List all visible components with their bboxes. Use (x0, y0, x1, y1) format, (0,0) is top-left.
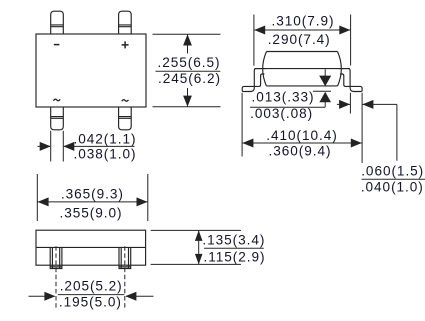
side view body right arc (338, 52, 342, 86)
svg-text:.013(.33): .013(.33) (252, 90, 315, 105)
side view right gull-wing lead (338, 69, 362, 92)
arrowhead .410 right (351, 139, 362, 148)
fraction bar .135/.115 (204, 247, 264, 249)
front view right pin (119, 247, 131, 268)
dim .013/.003 arrow stems (250, 69, 325, 107)
svg-text:.040(1.0): .040(1.0) (361, 179, 424, 194)
arrowhead .042 left (63, 142, 74, 151)
svg-text:.003(.08): .003(.08) (250, 106, 313, 121)
svg-text:.042(1.1): .042(1.1) (74, 131, 137, 146)
front view parting line (36, 246, 146, 248)
arrowhead .255 down (183, 96, 192, 107)
dim .410/.360 extension lines (242, 93, 362, 163)
fraction bar .060/.040 (362, 178, 425, 180)
svg-text:.245(6.2): .245(6.2) (158, 71, 221, 86)
svg-text:.365(9.3): .365(9.3) (61, 187, 124, 202)
top view pin 1 (top-left) (51, 11, 64, 34)
arrowhead .135 up (195, 230, 203, 241)
AC tilde mark right (122, 100, 129, 101)
svg-text:.195(5.0): .195(5.0) (59, 295, 122, 310)
dim .135/.115 arrow line (198, 230, 200, 264)
side view left gull-wing lead (242, 69, 266, 92)
side view body top (267, 51, 338, 53)
side view body left arc (263, 52, 267, 86)
dim .410/.360 arrow line (242, 142, 362, 144)
plus polarity mark (122, 41, 129, 48)
side view lead top line (255, 68, 350, 70)
front view right pin centerline (124, 246, 126, 309)
fraction bar .205/.195 (58, 294, 124, 296)
arrowhead .255 up (183, 34, 192, 45)
front view left pin centerline (55, 246, 57, 309)
arrowhead .060 left (362, 100, 373, 109)
arrowhead .365 left (38, 197, 49, 206)
arrowhead .310 right (339, 26, 350, 35)
svg-text:.060(1.5): .060(1.5) (361, 164, 424, 179)
dim .310/.290 extension lines (254, 15, 351, 66)
fraction bar .255/.245 (156, 70, 221, 72)
arrowhead .205 left (125, 292, 136, 301)
dim .135/.115 extension lines (151, 230, 241, 264)
svg-text:.410(10.4): .410(10.4) (266, 128, 337, 143)
minus polarity mark (54, 44, 60, 46)
dim .365/.355 extension lines (37, 174, 148, 221)
svg-text:.290(7.4): .290(7.4) (268, 32, 331, 47)
top view pin 2 (top-right) (119, 11, 132, 34)
arrowhead .205 right (44, 292, 55, 301)
arrowhead .013 down (319, 76, 331, 87)
arrowhead .135 down (195, 254, 203, 265)
svg-text:.135(3.4): .135(3.4) (202, 233, 265, 248)
dim .255/.245 extension lines (153, 34, 221, 107)
front view left pin (50, 247, 62, 268)
arrowhead .310 left (254, 26, 265, 35)
side view body bottom (266, 85, 337, 87)
dim .013/.003 seating segment (313, 90, 331, 92)
top view pin 3 (bottom-left) (51, 107, 64, 130)
dim .042/.038 extension lines (51, 131, 64, 162)
svg-text:.310(7.9): .310(7.9) (272, 14, 335, 29)
svg-text:.115(2.9): .115(2.9) (204, 249, 266, 264)
arrowhead .365 right (137, 197, 148, 206)
dim .060/.040 extension line (349, 93, 351, 114)
front view body (36, 230, 146, 265)
svg-text:.255(6.5): .255(6.5) (158, 55, 221, 70)
dim .310/.290 arrow line (254, 29, 351, 31)
dim .205/.195 arrow lines (29, 295, 154, 297)
svg-text:.038(1.0): .038(1.0) (74, 147, 137, 162)
dim .365/.355 arrow line (37, 201, 148, 203)
svg-text:.205(5.2): .205(5.2) (60, 279, 123, 294)
arrowhead .410 left (242, 139, 253, 148)
top view pin 4 (bottom-right) (119, 107, 132, 130)
arrowhead .060 right (339, 100, 350, 109)
arrowhead .013 up (319, 92, 331, 103)
svg-text:.355(9.0): .355(9.0) (60, 206, 123, 221)
dim .255/.245 arrow line (187, 34, 189, 107)
top view body (36, 34, 146, 107)
arrowhead .042 right (40, 142, 51, 151)
dim .042/.038 arrow lines (38, 145, 135, 147)
AC tilde mark left (53, 99, 60, 100)
dim .060/.040 arrow lines and leader (337, 104, 397, 160)
svg-text:.360(9.4): .360(9.4) (269, 143, 332, 158)
